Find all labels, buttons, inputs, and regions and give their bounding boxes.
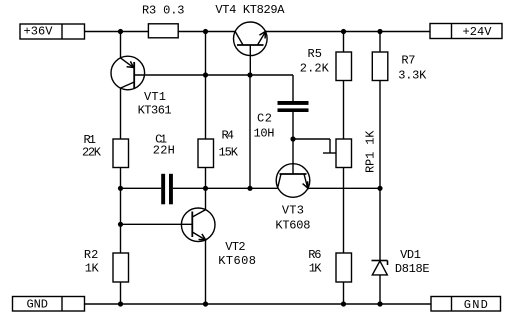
svg-text:15K: 15K: [219, 146, 239, 160]
svg-text:+24V: +24V: [463, 25, 493, 39]
node junction VT2 base: [118, 222, 123, 227]
svg-text:GND: GND: [464, 298, 488, 312]
node junction VT1 base / VT4 base: [247, 72, 252, 77]
node junction R4 bottom / VT2 collector: [203, 186, 208, 191]
node junction bottom rail / VT2 emitter: [203, 301, 208, 306]
wire top rail from +36V to R3: [85, 31, 149, 33]
wire R7 column from rail: [379, 32, 381, 53]
svg-text:R2: R2: [84, 248, 98, 262]
wire VT2 base: [121, 223, 193, 225]
node junction bottom rail / R6: [341, 301, 346, 306]
svg-text:R4: R4: [222, 129, 235, 143]
svg-text:C2: C2: [257, 112, 272, 126]
svg-text:R3 0.3: R3 0.3: [142, 3, 185, 17]
wire VT4 base column down: [249, 75, 251, 188]
svg-text:10H: 10H: [254, 127, 275, 141]
svg-text:1K: 1K: [85, 261, 100, 275]
wire wiper feed: [293, 138, 330, 140]
wire R4 bottom to VT2 collector: [205, 168, 207, 210]
wire R2 to bottom rail: [120, 282, 122, 304]
svg-text:2.2K: 2.2K: [300, 62, 330, 76]
node junction VT3 emitter / VD1 column: [377, 186, 382, 191]
terminal +36V: [20, 24, 85, 39]
node junction top rail / R7: [377, 29, 382, 34]
wiper bar RP1: [323, 152, 337, 154]
node junction top rail / R5: [341, 29, 346, 34]
svg-text:3.3K: 3.3K: [398, 68, 427, 82]
wire bottom rail: [85, 303, 432, 305]
svg-text:R7: R7: [401, 54, 415, 68]
resistor R5: [336, 52, 352, 81]
wire C2 bottom to VT3 base node: [292, 112, 294, 174]
svg-text:+36V: +36V: [24, 25, 54, 39]
wire RP1 to R6: [343, 168, 345, 254]
resistor R3: [148, 24, 178, 38]
wire VT1 collector to R1: [120, 88, 122, 139]
svg-text:KT608: KT608: [218, 254, 256, 268]
wire R1 to node A: [120, 168, 122, 225]
svg-text:VT3: VT3: [282, 204, 304, 218]
node junction VT4 base column / wire: [247, 186, 252, 191]
terminal GND right: [431, 297, 501, 312]
wire top rail from R3 to VT4 collector: [178, 31, 235, 33]
node junction bottom rail / R2: [118, 301, 123, 306]
resistor R6: [336, 253, 352, 282]
wire VT3 emitter to VD1 column: [308, 187, 380, 189]
svg-text:R5: R5: [308, 47, 323, 61]
svg-text:VD1: VD1: [400, 248, 421, 262]
resistor R2: [113, 253, 129, 282]
svg-text:KT361: KT361: [138, 104, 172, 118]
resistor R7: [372, 52, 388, 81]
transistor VT3: [276, 164, 310, 198]
svg-text:1K: 1K: [309, 261, 322, 275]
svg-text:VT4 KT829A: VT4 KT829A: [215, 3, 285, 17]
wire node A to C1: [121, 187, 162, 189]
transistor VT2: [181, 208, 215, 242]
wire VT1 base to column B: [134, 74, 293, 76]
terminal +24V: [430, 24, 502, 39]
transistor VT1: [111, 56, 145, 90]
node junction top rail / VT1 base column: [203, 29, 208, 34]
wire to C2 top: [292, 75, 294, 101]
node junction bottom rail / VD1: [377, 301, 382, 306]
svg-text:VT1: VT1: [144, 90, 166, 104]
wire C1 to VT3 collector: [173, 187, 278, 189]
wire VT2 emitter to bottom rail: [205, 240, 207, 304]
capacitor C2: [278, 101, 309, 112]
wire R7 to VD1: [379, 81, 381, 261]
node junction VT1 base / R4 column: [203, 72, 208, 77]
resistor R1: [113, 139, 129, 168]
node junction C2 / VT3 base / wiper: [290, 136, 295, 141]
svg-text:RP1 1K: RP1 1K: [364, 130, 378, 173]
wire top rail from VT4 emitter to +24V: [266, 31, 430, 33]
wire R6 to bottom rail: [343, 282, 345, 304]
resistor R4: [198, 139, 214, 168]
node junction top rail / VT1 emitter: [118, 29, 123, 34]
capacitor C1: [161, 174, 173, 205]
svg-text:GND: GND: [27, 298, 49, 312]
svg-text:R6: R6: [308, 248, 321, 262]
svg-text:KT608: KT608: [275, 218, 310, 232]
svg-text:D818E: D818E: [395, 262, 430, 276]
wire R5 column from rail: [343, 32, 345, 53]
zener diode VD1: [372, 261, 388, 305]
svg-text:VT2: VT2: [225, 240, 245, 254]
wire R2 column: [120, 224, 122, 253]
node junction R1 / C1 wire: [118, 186, 123, 191]
wire R4 column from top rail: [205, 32, 207, 140]
terminal GND left: [13, 297, 85, 312]
svg-text:22H: 22H: [153, 143, 175, 157]
transistor VT4: [234, 22, 268, 75]
potentiometer RP1: [336, 139, 352, 168]
wire R5 to RP1: [343, 81, 345, 140]
wire VT1 emitter from top rail: [120, 32, 122, 58]
svg-text:22K: 22K: [82, 146, 102, 160]
